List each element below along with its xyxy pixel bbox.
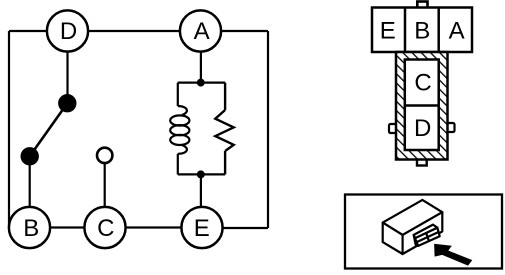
svg-text:B: B xyxy=(23,215,39,242)
wire bottom rail B-C-E xyxy=(30,226,203,228)
svg-text:C: C xyxy=(414,70,431,97)
divider B|A xyxy=(437,8,440,53)
switch contact dot upper xyxy=(58,94,76,112)
wire E to right frame xyxy=(202,227,268,229)
wire block to E xyxy=(200,174,202,208)
connector bottom tab xyxy=(417,157,427,166)
terminal D xyxy=(47,10,88,51)
switch contact dot lower xyxy=(21,147,39,165)
terminal A xyxy=(180,10,221,51)
terminal B xyxy=(9,207,50,248)
wire A to coil block xyxy=(200,51,202,83)
wire top rail D-A xyxy=(9,30,268,32)
divider C|D xyxy=(405,104,439,107)
svg-text:B: B xyxy=(414,18,430,45)
resistor R1 xyxy=(215,83,233,175)
open terminal circle above C xyxy=(97,148,112,163)
wire terminal to C xyxy=(104,164,106,208)
wire D to switch xyxy=(66,51,68,103)
divider E|B xyxy=(404,8,407,53)
connector right tab xyxy=(447,123,455,132)
terminal C xyxy=(84,207,125,248)
connector top tab xyxy=(417,2,427,11)
relay icon pin block xyxy=(414,225,440,246)
node top junction xyxy=(197,79,205,87)
wire coil block bottom xyxy=(178,173,225,175)
relay icon body xyxy=(383,200,443,254)
wire switch to B xyxy=(29,156,31,208)
svg-text:A: A xyxy=(194,18,210,45)
connector inner cavity xyxy=(405,60,439,151)
legend box xyxy=(345,195,502,269)
node bottom junction xyxy=(197,170,205,178)
wire right frame xyxy=(267,31,269,228)
svg-text:E: E xyxy=(194,215,210,242)
svg-text:C: C xyxy=(97,215,114,242)
switch blade xyxy=(30,103,68,156)
arrow xyxy=(434,244,472,266)
wire coil block top xyxy=(178,81,225,83)
wire left frame xyxy=(8,31,10,226)
inductor L1 xyxy=(170,83,189,175)
connector pin row EBA xyxy=(372,8,472,53)
connector body hatched xyxy=(396,52,448,160)
terminal E xyxy=(181,207,222,248)
connector left tab xyxy=(389,124,397,133)
svg-text:D: D xyxy=(414,115,431,142)
svg-text:D: D xyxy=(60,18,77,45)
svg-text:A: A xyxy=(449,18,465,45)
svg-text:E: E xyxy=(380,18,396,45)
